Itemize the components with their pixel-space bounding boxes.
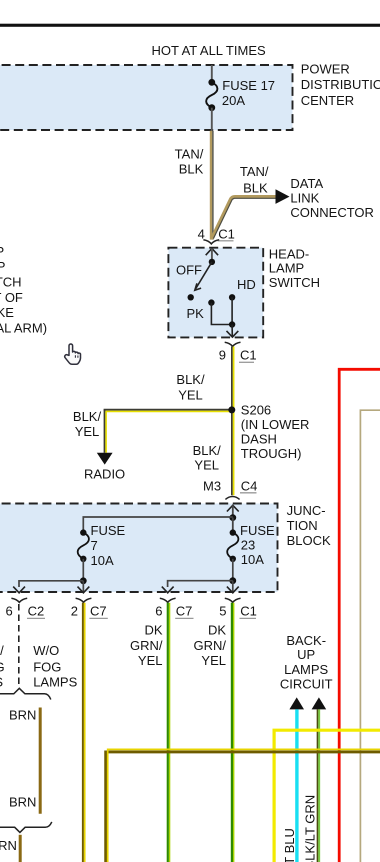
label DATA LINK CONNECTOR [290,176,374,220]
svg-text:LT BLU: LT BLU [282,828,297,862]
connector socket symbol 6 C7 [160,598,176,602]
wire YEL corner [274,730,380,862]
svg-text:FUSE: FUSE [91,523,126,538]
svg-text:UP: UP [297,647,315,662]
label TAN/BLK (branch) [240,164,269,196]
svg-text:TAN/: TAN/ [175,146,204,161]
label BACK-UP LAMPS CIRCUIT [280,633,333,692]
wire TAN/BLK branch to data link connector [212,197,277,239]
svg-text:HOT AT ALL TIMES: HOT AT ALL TIMES [152,43,266,58]
contact HD [229,294,235,300]
wire BRN upper [39,708,42,814]
label BLK/YEL (radio branch) [73,409,102,439]
bus fuse 7 to C2 exit [19,581,83,587]
exit arrow 6 C7 [162,587,174,593]
label HEAD-LAMP SWITCH [269,247,320,291]
fuse F17 20A [206,78,275,111]
svg-text:10A: 10A [241,552,264,567]
wire LT BLU [295,709,298,862]
wire RED right side [339,369,380,862]
arrow to radio [97,453,113,465]
exit arrow 5 C1 [227,581,239,593]
splice S206 [228,406,235,413]
arrow to back-up lamps (left) [289,697,304,709]
svg-text:FOG: FOG [0,660,5,675]
entry arrow into junction block [227,505,239,517]
svg-text:BLK/: BLK/ [193,443,222,458]
svg-text:5: 5 [219,603,226,618]
switch lever with arrowhead [195,262,212,290]
svg-text:YEL: YEL [194,458,219,473]
svg-text:C2: C2 [28,603,45,618]
wire PK to output [211,303,232,325]
connector socket symbol at 4 C1 [203,240,219,244]
wire fuse 23 input [232,518,234,533]
junction dot fuse 7 bus [80,577,87,584]
wire fuse 7 output [82,559,84,581]
label DK GRN/YEL (left) [130,623,163,669]
contact OFF [188,294,194,300]
exit arrow 6 C2 [13,587,25,593]
junction dot switch output [229,321,235,327]
mouse cursor [65,344,81,364]
svg-text:C4: C4 [241,479,258,494]
junction dot feed [229,514,236,521]
wire to switch output arrow [231,325,233,337]
svg-text:T OF: T OF [0,290,23,305]
svg-text:RADIO: RADIO [84,467,125,482]
svg-text:TION: TION [287,518,318,533]
wire DK GRN/YEL from 5 C1 [232,603,234,862]
svg-text:FOG: FOG [33,660,61,675]
label S206 (IN LOWER DASH TROUGH) [241,403,310,462]
pin 6 connector C7 labels [155,603,193,618]
wire dashed option (w/o fog lamps) [18,604,20,687]
svg-text:6: 6 [155,603,162,618]
svg-text:BLOCK: BLOCK [287,533,331,548]
svg-text:C1: C1 [240,348,257,363]
bus fuse 23 to C7 exit [168,581,233,587]
svg-text:TROUGH): TROUGH) [241,446,302,461]
svg-text:BACK-: BACK- [286,633,326,648]
pin 2 connector C7 labels [71,603,108,618]
svg-text:20A: 20A [222,93,245,108]
svg-text:BLK/: BLK/ [73,409,102,424]
svg-text:2: 2 [71,603,78,618]
svg-text:TAN/: TAN/ [240,164,269,179]
top border bar [0,24,380,27]
svg-text:DASH: DASH [241,432,277,447]
exit arrow 2 C7 [78,581,90,593]
wire fuse17 input (gray) [211,65,213,82]
arrow to back-up lamps (right) [312,697,327,709]
svg-text:BLK: BLK [179,162,204,177]
svg-text:SWITCH: SWITCH [269,275,320,290]
contact PK [208,299,214,305]
wire BRN bottom [19,835,22,862]
svg-text:10A: 10A [91,553,114,568]
svg-text:W/: W/ [0,643,4,658]
svg-text:LAMPS: LAMPS [33,675,77,690]
wire fuse17 output (gray, inside box) [211,108,213,131]
svg-text:C7: C7 [90,603,107,618]
connector socket symbol 5 C1 [225,598,241,602]
wire HD to output [231,297,233,324]
svg-text:C1: C1 [240,603,257,618]
exit arrow of headlamp switch [227,331,239,337]
connector socket symbol at 9 C1 [225,342,241,346]
svg-text:BLK: BLK [243,181,268,196]
fuse F23 10A [227,523,275,567]
svg-text:(IN LOWER: (IN LOWER [241,417,310,432]
svg-text:M3: M3 [203,479,221,494]
label JUNCTION BLOCK [287,503,331,548]
svg-text:PK: PK [187,306,205,321]
svg-text:DK: DK [208,623,226,638]
svg-text:YEL: YEL [201,653,226,668]
label BLK/YEL (below S206) [193,443,222,473]
pin 6 connector C2 labels [6,603,46,618]
junction block box [0,504,278,593]
wire BLK/YEL branch to radio [104,410,232,453]
svg-text:W/O: W/O [33,643,59,658]
wire BLK/YEL corner (lower left olive) [106,749,380,862]
svg-text:HD: HD [237,277,256,292]
pin 5 connector C1 labels [219,603,257,618]
connector plug symbol at M3 C4 [225,497,239,500]
wire BLK/YEL switch to S206 and M3 [232,347,234,496]
pin M3 and connector C4 labels [203,479,257,494]
svg-text:TCH: TCH [0,275,22,290]
power distribution center box [0,65,293,130]
svg-text:7: 7 [91,538,98,553]
svg-text:AL ARM): AL ARM) [0,321,47,336]
fuse F7 10A [78,523,126,568]
svg-text:JUNC-: JUNC- [287,503,326,518]
wire feed to fuse 7 [83,517,233,533]
svg-text:KE: KE [0,305,14,320]
svg-text:OFF: OFF [176,263,202,278]
svg-text:FUSE 17: FUSE 17 [222,78,275,93]
option brace (merge w/o fog) [0,688,51,699]
svg-text:DK: DK [144,623,162,638]
svg-text:STOP: STOP [0,244,4,259]
label POWER DISTRIBUTION CENTER [301,62,380,108]
svg-text:DISTRIBUTION: DISTRIBUTION [301,77,380,92]
svg-text:YEL: YEL [138,653,163,668]
label TAN/BLK (vertical wire) [175,146,204,176]
connector socket symbol 6 C2 [11,598,27,602]
wire TAN right side [360,410,380,862]
label BLK/YEL (above S206) [176,372,205,403]
svg-text:DATA: DATA [290,176,323,191]
svg-text:CIRCUIT: CIRCUIT [280,676,333,691]
junction dot fuse 23 bus [229,577,236,584]
svg-text:9: 9 [219,348,226,363]
svg-text:LAMP: LAMP [0,259,5,274]
svg-text:BLK/: BLK/ [176,372,205,387]
head-lamp switch box [168,248,263,338]
entry arrow into headlamp switch [206,248,218,262]
arrow to data link connector [276,189,290,204]
svg-text:BRN: BRN [0,838,17,853]
pin 9 and connector C1 labels [219,348,257,363]
svg-text:FUSE: FUSE [240,523,275,538]
svg-text:POWER: POWER [301,62,350,77]
svg-text:C7: C7 [176,603,193,618]
svg-text:CONNECTOR: CONNECTOR [290,205,374,220]
svg-text:BLK/LT GRN: BLK/LT GRN [302,795,317,862]
wire fuse 23 output [232,559,234,581]
svg-text:S206: S206 [241,403,271,418]
wire BLK/YEL from 2 C7 [83,603,85,862]
svg-text:LAMP: LAMP [269,261,304,276]
svg-text:BRN: BRN [9,795,36,810]
svg-text:BRN: BRN [9,708,36,723]
option brace (split) [0,822,52,833]
switch common contact [209,259,215,265]
connector socket symbol 2 C7 [76,598,92,602]
svg-text:HEAD-: HEAD- [269,247,309,262]
svg-text:LINK: LINK [290,191,319,206]
svg-text:LAMPS: LAMPS [0,675,3,690]
svg-text:GRN/: GRN/ [194,638,227,653]
pin 4 and connector C1 labels [198,226,235,241]
svg-text:6: 6 [6,603,13,618]
svg-text:GRN/: GRN/ [130,638,163,653]
svg-text:C1: C1 [218,226,235,241]
wire TAN/BLK vertical [211,131,213,240]
label W/O FOG LAMPS [33,643,77,690]
label DK GRN/YEL (right) [194,623,227,669]
svg-text:LAMPS: LAMPS [284,662,328,677]
svg-text:YEL: YEL [75,424,100,439]
svg-text:23: 23 [241,538,255,553]
wire BLK/LT GRN [318,709,320,862]
svg-text:CENTER: CENTER [301,93,354,108]
wire DK GRN/YEL from 6 C7 [168,603,170,862]
svg-text:YEL: YEL [178,388,203,403]
